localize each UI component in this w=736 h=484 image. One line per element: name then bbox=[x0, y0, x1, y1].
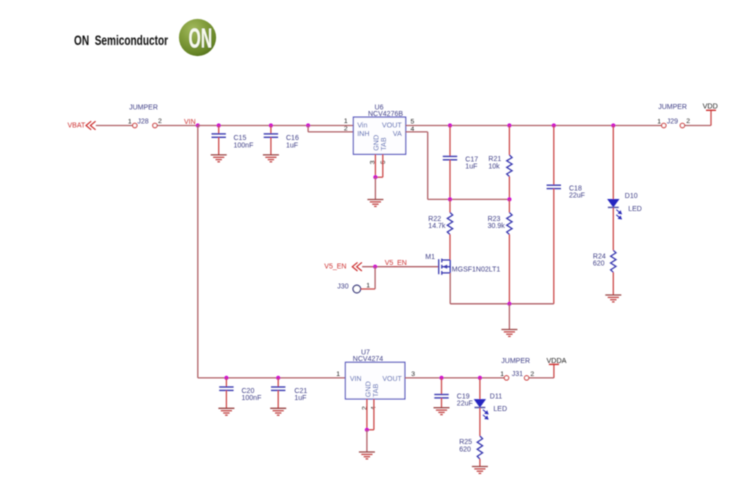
svg-text:J29: J29 bbox=[667, 119, 678, 126]
ground (C21) bbox=[270, 408, 286, 415]
wire INH tie to U6 pin 2 bbox=[308, 131, 353, 133]
svg-text:22uF: 22uF bbox=[569, 193, 585, 200]
ground (C20) bbox=[218, 408, 234, 415]
wire VDD riser bbox=[710, 110, 712, 125]
jumper J28 pin 2 bbox=[153, 123, 157, 127]
ground (mid rail) bbox=[501, 330, 517, 337]
wire U6 TAB to GND tie bbox=[375, 176, 382, 178]
capacitor C17 bbox=[443, 156, 457, 159]
junction C17 bottom bbox=[448, 197, 452, 201]
svg-text:R21: R21 bbox=[488, 156, 501, 163]
svg-text:C19: C19 bbox=[457, 394, 470, 401]
ground (R25) bbox=[472, 467, 488, 474]
wire U7 pin 2 (GND) down bbox=[366, 399, 368, 430]
jumper J29 pin 1 bbox=[662, 123, 666, 127]
svg-text:LED: LED bbox=[493, 406, 507, 413]
wire U7 pin 4 (TAB) down bbox=[373, 399, 375, 430]
svg-text:J30: J30 bbox=[337, 283, 348, 290]
wire U7 TAB to GND tie bbox=[367, 429, 374, 431]
wire V5_EN to M1 gate bbox=[362, 266, 439, 268]
junction C18 top bbox=[552, 123, 556, 127]
svg-text:ON: ON bbox=[189, 23, 213, 54]
svg-text:1uF: 1uF bbox=[294, 395, 306, 402]
svg-text:C21: C21 bbox=[294, 388, 307, 395]
junction C15 top bbox=[217, 123, 221, 127]
svg-text:NCV4274: NCV4274 bbox=[353, 356, 383, 363]
wire VIN rail to U6 pin 1 bbox=[198, 125, 354, 127]
svg-text:C18: C18 bbox=[569, 185, 582, 192]
capacitor C19 bbox=[434, 395, 448, 398]
svg-text:100nF: 100nF bbox=[242, 395, 262, 402]
svg-text:VDD: VDD bbox=[703, 102, 718, 111]
resistor R22 bbox=[447, 213, 452, 235]
jumper J28 pin 1 bbox=[133, 123, 137, 127]
wire C19 bottom lead bbox=[441, 398, 443, 408]
capacitor C16 bbox=[264, 134, 278, 137]
wire C15 bottom lead bbox=[218, 137, 220, 155]
logo ON ball bbox=[179, 19, 216, 56]
svg-text:C20: C20 bbox=[242, 388, 255, 395]
wire C21 top lead bbox=[277, 378, 279, 387]
wire R21 bottom lead bbox=[508, 177, 510, 200]
ground (U7) bbox=[359, 452, 375, 459]
wire C16 bottom lead bbox=[270, 137, 272, 155]
capacitor C20 bbox=[219, 387, 233, 390]
junction R21 top bbox=[507, 123, 511, 127]
ground (C15) bbox=[211, 155, 227, 162]
wire VBAT to J28 pin1 bbox=[96, 125, 133, 127]
svg-text:D10: D10 bbox=[625, 193, 638, 200]
svg-text:C15: C15 bbox=[234, 135, 247, 142]
svg-text:620: 620 bbox=[593, 261, 605, 268]
wire C15 top lead bbox=[218, 126, 220, 134]
capacitor C21 bbox=[271, 387, 285, 390]
off-page connector VBAT chevrons bbox=[86, 121, 96, 130]
wire J30 tie vertical bbox=[374, 267, 376, 289]
svg-text:VOUT: VOUT bbox=[382, 376, 402, 383]
wire J28 pin2 to VIN node bbox=[157, 125, 198, 127]
wire R22 to M1 drain bbox=[449, 235, 451, 260]
svg-text:M1: M1 bbox=[425, 254, 435, 261]
LED D11 bbox=[475, 400, 488, 420]
svg-text:TAB: TAB bbox=[379, 137, 388, 151]
svg-text:1: 1 bbox=[366, 282, 370, 289]
junction D10 top bbox=[611, 123, 615, 127]
wire M1 source down bbox=[449, 273, 451, 304]
svg-text:MGSF1N02LT1: MGSF1N02LT1 bbox=[452, 267, 501, 274]
svg-text:INH: INH bbox=[357, 129, 369, 138]
junction U7 gnd tie bbox=[365, 428, 369, 432]
svg-text:C16: C16 bbox=[286, 135, 299, 142]
wire U7 VOUT rail to J31 bbox=[405, 377, 504, 379]
wire U6 pin 4 (VA) right bbox=[406, 131, 428, 133]
svg-text:NCV4276B: NCV4276B bbox=[368, 111, 403, 118]
svg-text:1: 1 bbox=[336, 371, 340, 378]
wire U7 gnd tie to ground bbox=[366, 430, 368, 452]
svg-text:5: 5 bbox=[411, 118, 415, 125]
svg-text:R22: R22 bbox=[428, 216, 441, 223]
wire C21 bottom lead bbox=[277, 390, 279, 408]
wire R23 top lead bbox=[508, 199, 510, 212]
resistor R21 bbox=[507, 155, 512, 177]
svg-text:LED: LED bbox=[628, 206, 642, 213]
wire R22 top lead bbox=[449, 199, 451, 212]
wire C16 top lead bbox=[270, 126, 272, 134]
svg-text:1: 1 bbox=[657, 119, 661, 126]
wire J31 pin2 to VDDA bbox=[529, 377, 554, 379]
jumper J31 pin 1 bbox=[504, 376, 508, 380]
svg-text:JUMPER: JUMPER bbox=[129, 105, 158, 112]
jumper J29 pin 2 bbox=[680, 123, 684, 127]
junction C20 top bbox=[224, 376, 228, 380]
junction VIN node bbox=[196, 123, 200, 127]
capacitor C15 bbox=[212, 134, 226, 137]
wire C19 top lead bbox=[441, 378, 443, 395]
wire to mid ground bbox=[508, 304, 510, 330]
connector J30 pin 1 bbox=[353, 285, 361, 293]
svg-text:R24: R24 bbox=[593, 253, 606, 260]
svg-text:VDDA: VDDA bbox=[547, 356, 567, 365]
svg-text:620: 620 bbox=[459, 446, 471, 453]
svg-text:100nF: 100nF bbox=[234, 142, 254, 149]
junction INH tie bbox=[306, 123, 310, 127]
svg-text:1uF: 1uF bbox=[286, 142, 298, 149]
wire VDDA riser bbox=[553, 364, 555, 378]
wire D11 cathode to R25 bbox=[479, 408, 481, 436]
svg-text:VA: VA bbox=[393, 129, 402, 138]
wire R25 to ground bbox=[479, 459, 481, 467]
jumper J31 pin 2 bbox=[524, 376, 528, 380]
svg-text:J28: J28 bbox=[137, 119, 148, 126]
ground (R24) bbox=[605, 295, 621, 302]
svg-text:V5_EN: V5_EN bbox=[385, 260, 407, 267]
wire VOUT rail U6 pin5 to J29 bbox=[406, 125, 662, 127]
wire C18 bottom lead bbox=[553, 189, 555, 304]
wire VA vertical down bbox=[427, 132, 429, 200]
op-amp U6 NCV4276B body bbox=[353, 117, 405, 154]
power symbol VDDA bar bbox=[549, 363, 559, 365]
svg-text:2: 2 bbox=[344, 125, 348, 132]
junction C19 top bbox=[439, 376, 443, 380]
wire R21 top lead bbox=[508, 126, 510, 156]
wire U6 pin 6 (TAB) down bbox=[382, 154, 384, 177]
svg-text:J31: J31 bbox=[512, 371, 523, 378]
wire C20 bottom lead bbox=[225, 390, 227, 408]
resistor R24 bbox=[611, 250, 616, 272]
wire bottom rail to C18 bbox=[450, 303, 554, 305]
wire VA feedback rail bbox=[428, 198, 510, 200]
svg-text:V5_EN: V5_EN bbox=[324, 264, 346, 271]
svg-text:3: 3 bbox=[411, 371, 415, 378]
transistor M1 MGSF1N02LT1 bbox=[439, 259, 451, 275]
op-amp U7 NCV4274 body bbox=[345, 362, 405, 399]
junction U6 gnd tie bbox=[373, 175, 377, 179]
junction D11 top bbox=[478, 376, 482, 380]
svg-text:30.9k: 30.9k bbox=[488, 223, 506, 230]
svg-text:JUMPER: JUMPER bbox=[501, 358, 530, 365]
wire C18 top lead bbox=[553, 126, 555, 186]
svg-text:2: 2 bbox=[158, 118, 162, 125]
wire U6 gnd tie to ground bbox=[374, 177, 376, 199]
svg-text:2: 2 bbox=[530, 371, 534, 378]
svg-text:TAB: TAB bbox=[371, 384, 380, 398]
junction R21/R23 node bbox=[507, 197, 511, 201]
svg-text:D11: D11 bbox=[490, 394, 502, 401]
svg-text:VBAT: VBAT bbox=[68, 122, 86, 129]
wire C17 bottom lead bbox=[449, 160, 451, 200]
svg-text:C17: C17 bbox=[465, 156, 478, 163]
resistor R23 bbox=[507, 213, 512, 235]
ground (C16) bbox=[263, 155, 279, 162]
svg-text:JUMPER: JUMPER bbox=[658, 104, 687, 111]
capacitor C18 bbox=[547, 185, 561, 188]
svg-text:10k: 10k bbox=[488, 163, 500, 170]
power symbol VDD bar bbox=[706, 109, 716, 111]
svg-text:1: 1 bbox=[500, 371, 504, 378]
svg-text:R25: R25 bbox=[459, 439, 472, 446]
wire bottom VIN rail to U7 pin 1 bbox=[198, 377, 346, 379]
svg-text:1uF: 1uF bbox=[465, 164, 477, 171]
svg-text:R23: R23 bbox=[488, 216, 501, 223]
svg-text:22uF: 22uF bbox=[457, 401, 473, 408]
wire J29 pin2 to VDD bbox=[685, 125, 711, 127]
wire R23 bottom lead bbox=[508, 235, 510, 304]
junction V5_EN tie bbox=[373, 265, 377, 269]
svg-text:ON Semiconductor: ON Semiconductor bbox=[74, 33, 168, 49]
wire U6 pin 3 (GND) down bbox=[374, 154, 376, 177]
wire INH tie vertical bbox=[307, 126, 309, 132]
ground (U6) bbox=[367, 200, 383, 207]
wire D10 anode lead bbox=[612, 126, 614, 200]
junction C17 top bbox=[448, 123, 452, 127]
svg-text:VIN: VIN bbox=[184, 119, 196, 126]
junction C21 top bbox=[276, 376, 280, 380]
svg-text:VIN: VIN bbox=[350, 376, 362, 383]
svg-text:1: 1 bbox=[128, 119, 132, 126]
svg-text:1: 1 bbox=[344, 118, 348, 125]
off-page connector V5_EN chevrons bbox=[352, 262, 362, 271]
wire R24 to ground bbox=[612, 272, 614, 295]
resistor R25 bbox=[477, 436, 482, 459]
wire VIN vertical to bottom section bbox=[197, 126, 199, 378]
LED D10 bbox=[608, 199, 621, 219]
wire D10 cathode to R24 bbox=[612, 208, 614, 250]
wire C17 top lead bbox=[449, 126, 451, 157]
ground (C19) bbox=[434, 408, 450, 415]
wire D11 anode lead bbox=[479, 378, 481, 400]
junction bottom rail ground tie bbox=[507, 302, 511, 306]
wire J30 to V5_EN tie horizontal bbox=[361, 288, 375, 290]
wire C20 top lead bbox=[225, 378, 227, 387]
svg-text:2: 2 bbox=[686, 118, 690, 125]
junction C16 top bbox=[269, 123, 273, 127]
svg-text:14.7k: 14.7k bbox=[428, 223, 446, 230]
